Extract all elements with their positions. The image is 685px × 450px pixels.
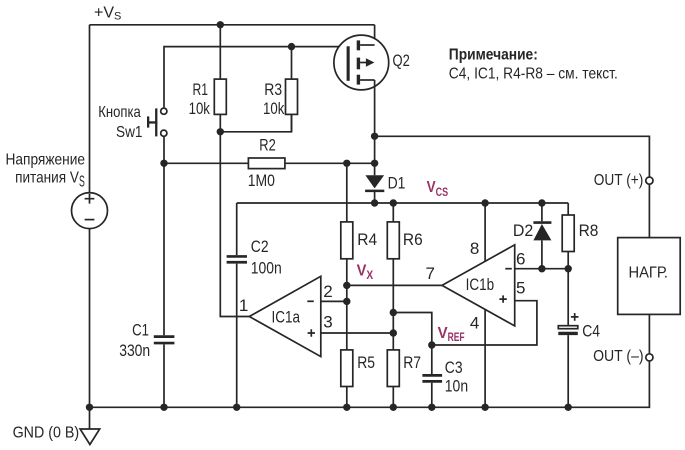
node junction D2 anode — [538, 265, 545, 272]
svg-text:2: 2 — [323, 282, 332, 301]
svg-text:R8: R8 — [579, 221, 599, 240]
svg-text:IC1a: IC1a — [272, 308, 301, 327]
wire pin5 loop — [432, 301, 537, 345]
node junction gnd C4 — [565, 404, 572, 411]
wire Sw1 to R2 — [164, 137, 248, 163]
svg-text:IC1b: IC1b — [466, 275, 495, 294]
svg-text:C3: C3 — [445, 358, 463, 377]
node junction D1 cathode — [371, 199, 378, 206]
wire drain drop from top rail — [374, 25, 376, 45]
source Vs battery — [72, 193, 108, 408]
node junction R8 bottom — [565, 265, 572, 272]
svg-text:Sw1: Sw1 — [116, 124, 143, 141]
node junction pin3/R6 — [390, 329, 397, 336]
resistor R2 — [248, 158, 374, 169]
svg-text:100n: 100n — [251, 259, 282, 278]
node junction top rail R1 — [217, 21, 224, 28]
svg-text:4: 4 — [470, 314, 479, 333]
svg-text:R4: R4 — [357, 230, 377, 249]
wire OUT+ feed — [375, 136, 650, 177]
svg-text:R5: R5 — [357, 353, 375, 372]
wire source column down to D1 — [374, 80, 376, 175]
terminal OUT+ — [646, 177, 653, 184]
svg-text:1: 1 — [239, 296, 248, 315]
wire pin8 column — [484, 203, 486, 261]
transistor Q2 — [334, 35, 389, 90]
svg-text:1M0: 1M0 — [248, 171, 275, 190]
wire R1-R3 bottom link — [220, 114, 291, 131]
wire pin3 to R6 column — [321, 332, 394, 334]
node junction pin7/R4 — [343, 282, 350, 289]
wire pin6 line — [515, 268, 569, 270]
node junction gnd pin4 — [481, 404, 488, 411]
svg-text:6: 6 — [516, 250, 525, 269]
op-amp IC1a — [249, 276, 320, 356]
node junction Sw1/R2/C1 — [160, 160, 167, 167]
wire +Vs top rail — [90, 24, 375, 26]
switch Sw1 — [147, 108, 167, 136]
svg-text:Q2: Q2 — [393, 51, 410, 70]
node junction gnd R7 — [390, 404, 397, 411]
resistor R7 — [387, 333, 399, 407]
wire R6/R7 tap to Vref node — [393, 313, 432, 346]
wire pin7 line — [347, 284, 442, 286]
wire gate rail — [164, 47, 347, 108]
terminal OUT- — [646, 354, 653, 361]
resistor R3 — [286, 47, 298, 132]
svg-text:питания V: питания V — [15, 170, 79, 187]
node junction R2/R4 — [343, 160, 350, 167]
resistor R1 — [214, 25, 226, 132]
svg-text:GND (0 В): GND (0 В) — [13, 425, 80, 442]
svg-text:5: 5 — [516, 278, 525, 297]
svg-text:R7: R7 — [403, 353, 421, 372]
svg-text:OUT (–): OUT (–) — [593, 348, 644, 365]
diode D1 — [365, 175, 384, 203]
node junction source/out — [371, 133, 378, 140]
svg-text:C4: C4 — [582, 322, 600, 341]
svg-text:330n: 330n — [119, 341, 150, 360]
node junction gnd Vs — [86, 404, 93, 411]
node junction pin2/R4 — [343, 298, 350, 305]
svg-text:OUT (+): OUT (+) — [594, 172, 644, 189]
load box НАГР — [618, 238, 681, 315]
svg-text:НАГР.: НАГР. — [629, 264, 669, 281]
node junction gnd C2 — [233, 404, 240, 411]
node junction gate rail R3 — [288, 43, 295, 50]
wire Vcs rail — [237, 202, 569, 204]
svg-text:10k: 10k — [263, 99, 285, 118]
svg-text:Примечание:: Примечание: — [449, 47, 538, 64]
wire load to OUT- — [648, 314, 650, 353]
svg-text:7: 7 — [426, 264, 435, 283]
svg-text:C4, IC1, R4-R8 – см. текст.: C4, IC1, R4-R8 – см. текст. — [449, 65, 618, 82]
svg-text:10k: 10k — [189, 99, 211, 118]
svg-text:8: 8 — [470, 239, 479, 258]
wire R1 node down to IC1a output — [220, 132, 249, 317]
node junction R6 top — [390, 199, 397, 206]
op-amp IC1b — [442, 245, 515, 326]
resistor R8 — [562, 203, 574, 269]
capacitor C4 polarized — [558, 269, 578, 408]
node junction gnd R5 — [343, 404, 350, 411]
node junction D2 cathode — [538, 199, 545, 206]
node junction gnd C1 — [160, 404, 167, 411]
svg-text:D1: D1 — [388, 173, 406, 192]
wire OUT- down to ground rail — [90, 361, 650, 407]
capacitor C1 — [154, 163, 175, 407]
svg-text:R3: R3 — [264, 80, 282, 99]
capacitor C2 — [227, 203, 247, 407]
svg-text:10n: 10n — [445, 377, 468, 396]
resistor R4 — [341, 163, 353, 301]
svg-text:Кнопка: Кнопка — [98, 104, 141, 121]
resistor R5 — [341, 301, 353, 407]
svg-text:R1: R1 — [193, 80, 209, 99]
node junction Vref — [428, 341, 435, 348]
svg-text:C1: C1 — [132, 321, 149, 340]
wire pin4 column — [484, 310, 486, 408]
node junction source/R2 — [371, 160, 378, 167]
node junction gnd C3 — [428, 404, 435, 411]
node junction R6/R7 tap — [390, 309, 397, 316]
svg-text:D2: D2 — [513, 221, 533, 240]
wire pin2 to R4 column — [321, 300, 347, 302]
ground symbol — [80, 407, 100, 444]
wire OUT+ to load — [648, 184, 650, 237]
svg-text:Напряжение: Напряжение — [6, 151, 86, 168]
resistor R6 — [387, 203, 399, 333]
wire left supply column upper — [89, 25, 91, 193]
node junction pin8 — [481, 199, 488, 206]
diode D2 — [533, 203, 551, 269]
capacitor C3 — [422, 345, 442, 407]
svg-text:3: 3 — [323, 313, 332, 332]
node junction R1 bottom — [217, 128, 224, 135]
svg-text:S: S — [79, 173, 85, 190]
svg-text:R2: R2 — [259, 135, 276, 154]
svg-text:R6: R6 — [403, 230, 423, 249]
svg-text:C2: C2 — [251, 237, 269, 256]
